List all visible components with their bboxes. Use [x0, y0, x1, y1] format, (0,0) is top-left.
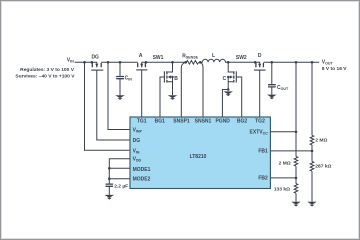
svg-text:Regulates: 3 V to 100 V: Regulates: 3 V to 100 V: [20, 67, 75, 73]
node SW2 junction dot: [227, 61, 230, 64]
wire VDD to bypass: [109, 159, 130, 184]
wire C gate to BG2 pin: [236, 77, 241, 117]
wire MODE2: [109, 178, 130, 180]
svg-text:L: L: [212, 53, 215, 59]
node CIN junction dot: [119, 61, 122, 64]
svg-text:DG: DG: [91, 55, 99, 61]
node FB2 junction dot: [295, 177, 298, 180]
svg-text:VIN: VIN: [67, 58, 74, 64]
node MODE2 junction dot: [108, 177, 111, 180]
wire 2M right to FB1 node: [311, 145, 313, 162]
wire C source to PGND pin: [222, 90, 228, 118]
wire VINP to pin: [108, 62, 130, 129]
wire divider right top: [311, 62, 313, 135]
svg-text:133 kΩ: 133 kΩ: [274, 186, 290, 192]
wire 133k to ground: [295, 193, 297, 202]
svg-text:2.2 µF: 2.2 µF: [114, 183, 128, 189]
node VINP junction dot: [107, 61, 110, 64]
node MODE1 junction dot: [108, 167, 111, 170]
svg-text:SNSN1: SNSN1: [195, 118, 212, 124]
node VIN junction dot: [83, 61, 86, 64]
svg-text:LT8210: LT8210: [190, 154, 207, 160]
svg-text:D: D: [258, 53, 262, 59]
svg-text:DG: DG: [133, 138, 141, 144]
wire RSENSE left tap to SNSP1: [181, 62, 185, 117]
svg-text:TG1: TG1: [137, 118, 147, 124]
svg-text:MODE2: MODE2: [133, 177, 151, 183]
svg-text:B: B: [174, 76, 178, 82]
wire A gate to TG1 pin: [141, 70, 143, 117]
wire rail SW1: [146, 61, 186, 63]
svg-text:287 kΩ: 287 kΩ: [315, 163, 331, 169]
svg-text:BG1: BG1: [155, 118, 166, 124]
svg-text:SW1: SW1: [153, 55, 164, 61]
wire 287k to ground: [311, 171, 313, 202]
wire DG gate to DG pin: [97, 70, 130, 140]
capacitor 2.2uF: [106, 184, 114, 195]
wire EXTVCC to divider: [270, 131, 296, 133]
svg-text:RSENSE: RSENSE: [182, 54, 198, 60]
transistor DG (back-to-back blocking FET): [91, 61, 104, 70]
svg-text:8 V to 16 V: 8 V to 16 V: [322, 66, 347, 72]
node COUT junction dot: [271, 61, 274, 64]
IC U1 LT8210 body: [130, 117, 270, 189]
capacitor COUT: [268, 62, 276, 94]
svg-text:BG2: BG2: [237, 118, 248, 124]
svg-text:SW2: SW2: [236, 55, 247, 61]
node C source junction dot: [227, 88, 230, 91]
resistor 2M left: [294, 157, 298, 167]
ground C: [223, 91, 233, 96]
wire D gate to TG2 pin: [259, 70, 261, 117]
svg-text:CIN: CIN: [125, 76, 133, 82]
wire rail SW2: [228, 61, 256, 63]
ground COUT: [267, 95, 277, 100]
wire B gate to BG1 pin: [160, 77, 164, 117]
transistor A: [136, 61, 147, 70]
svg-text:COUT: COUT: [277, 85, 289, 91]
svg-text:2 MΩ: 2 MΩ: [279, 161, 291, 167]
wire VOUT rail: [263, 61, 319, 63]
ground CIN: [115, 95, 125, 100]
node B drain junction dot: [171, 61, 174, 64]
node EXTVCC junction dot: [295, 131, 298, 134]
svg-text:Survives: –40 V to +100 V: Survives: –40 V to +100 V: [15, 74, 75, 80]
node divider left top dot: [295, 61, 298, 64]
resistor 133k: [294, 184, 298, 194]
svg-text:A: A: [139, 53, 143, 59]
wire VIN rail: [75, 61, 93, 63]
ground divider left: [291, 202, 301, 207]
svg-text:SNSP1: SNSP1: [173, 118, 190, 124]
transistor D: [254, 61, 266, 70]
wire FB1 to divider: [270, 150, 312, 152]
wire 2M left to FB2 node: [295, 166, 297, 184]
svg-text:PGND: PGND: [215, 118, 230, 124]
resistor 287k: [310, 162, 314, 172]
svg-text:2 MΩ: 2 MΩ: [315, 138, 327, 144]
svg-text:VOUT: VOUT: [322, 59, 334, 65]
wire rail DG to A: [101, 61, 138, 63]
inductor L: [200, 59, 228, 62]
resistor 2M right: [310, 135, 314, 145]
svg-text:C: C: [223, 76, 227, 82]
node FB1 junction dot: [311, 150, 314, 153]
capacitor CIN: [116, 62, 124, 95]
wire VIN sense to pin: [85, 62, 131, 150]
resistor RSENSE: [184, 61, 201, 65]
node divider right top dot: [311, 61, 314, 64]
transistor B: [164, 62, 173, 95]
svg-text:TG2: TG2: [255, 118, 265, 124]
wire divider left top: [295, 62, 297, 156]
wire MODE1: [109, 167, 130, 169]
wire RSENSE right tap to SNSN1: [200, 62, 203, 117]
transistor C: [227, 62, 236, 89]
ground divider right: [307, 202, 317, 207]
wire FB2 to divider: [270, 177, 296, 179]
ground bypass: [105, 195, 115, 200]
ground B: [168, 95, 178, 100]
svg-text:MODE1: MODE1: [133, 167, 151, 173]
svg-text:FB1: FB1: [258, 149, 268, 155]
svg-text:FB2: FB2: [258, 176, 268, 182]
